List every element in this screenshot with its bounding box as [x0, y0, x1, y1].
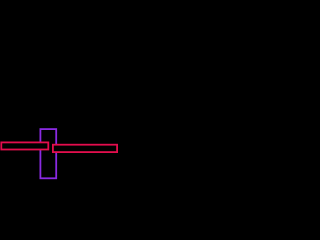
purple rectangle: [40, 129, 56, 178]
right red rectangle: [53, 145, 117, 152]
left red rectangle: [1, 142, 48, 149]
